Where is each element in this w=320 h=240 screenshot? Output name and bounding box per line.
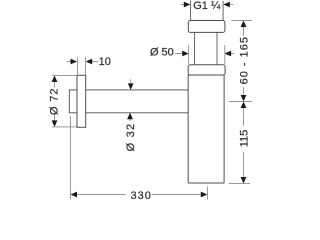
svg-text:10: 10 (99, 56, 111, 68)
svg-text:Ø 50: Ø 50 (150, 47, 174, 59)
svg-text:330: 330 (131, 190, 152, 200)
svg-text:Ø 72: Ø 72 (48, 88, 60, 115)
svg-text:G1 ¼: G1 ¼ (193, 0, 221, 12)
svg-text:60 - 165: 60 - 165 (238, 36, 250, 84)
svg-text:Ø 32: Ø 32 (125, 123, 137, 152)
svg-text:115: 115 (238, 130, 250, 148)
